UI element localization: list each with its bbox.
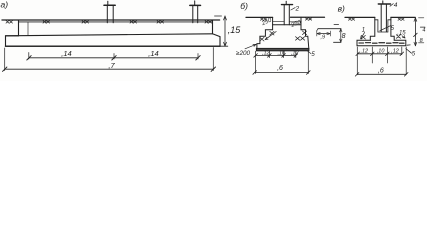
column 2 cap stub — [194, 1, 196, 6]
column B cap plate — [282, 4, 293, 6]
dim V extensions — [356, 47, 358, 75]
tick — [211, 67, 215, 71]
callout 5 bottom leader V — [406, 49, 412, 54]
svg-text:4: 4 — [394, 2, 398, 9]
small dash left of annex — [334, 23, 339, 25]
cup base step right — [391, 36, 394, 40]
depth dimension line 1,5 — [224, 16, 226, 46]
svg-text:б): б) — [240, 1, 248, 11]
dimension line B 1,2 1,0 1,2 — [256, 54, 296, 56]
step detail bottom tick — [334, 41, 342, 43]
strip foundation outline — [6, 20, 221, 46]
svg-text:4: 4 — [422, 28, 425, 34]
svg-text:,6: ,6 — [277, 65, 283, 72]
svg-text:8: 8 — [342, 33, 346, 40]
cup base step left — [370, 36, 375, 40]
ground line V left — [345, 16, 375, 18]
footing B base band — [256, 48, 309, 50]
socket cup outer right — [390, 17, 392, 36]
svg-text:,14: ,14 — [148, 49, 158, 58]
svg-text:,15: ,15 — [397, 31, 406, 37]
column 1 cap stub — [107, 1, 109, 5]
footing B pedestal right edge — [300, 17, 302, 30]
svg-text:,12: ,12 — [360, 49, 368, 55]
socket cup rim left — [375, 19, 378, 21]
svg-text:≥200: ≥200 — [236, 50, 250, 57]
svg-text:в): в) — [338, 4, 345, 14]
soil mark B1 — [261, 18, 267, 20]
dash at base corner V — [407, 44, 410, 46]
svg-text:а): а) — [1, 0, 9, 10]
column 2 shaft — [192, 5, 194, 22]
svg-text:,10: ,10 — [277, 50, 286, 56]
column B cap stub — [285, 1, 287, 4]
svg-text:,6: ,6 — [378, 67, 384, 74]
base slab V texture — [359, 42, 404, 45]
callout 2 leader — [291, 8, 295, 10]
depth dim extension top — [215, 15, 222, 17]
callout 4 leader — [390, 4, 393, 7]
svg-text:,12: ,12 — [262, 50, 270, 56]
step detail line upper — [318, 28, 341, 30]
mid tick — [414, 33, 418, 36]
callout 5 leader B — [307, 51, 311, 54]
socket cup inner left — [377, 20, 379, 32]
tick — [196, 56, 200, 60]
soil mark A1 — [6, 21, 13, 24]
column B shaft — [283, 5, 285, 25]
ground line A — [2, 19, 220, 21]
svg-text:,10: ,10 — [377, 49, 386, 55]
ticks — [356, 52, 360, 56]
ticks — [355, 73, 359, 77]
tick — [3, 67, 7, 71]
ticks — [253, 71, 257, 75]
footing B pedestal left edge — [272, 17, 274, 29]
callout 1 leader — [361, 32, 365, 38]
footing B step outline right — [301, 30, 309, 49]
socket cup interior bottom — [378, 31, 388, 33]
depth dim extension bottom — [221, 45, 228, 47]
soil mark A4 — [130, 21, 137, 24]
svg-text:,15: ,15 — [228, 25, 242, 35]
soil mark V1 — [349, 18, 355, 20]
base slab V — [357, 40, 406, 46]
strip foundation top edge — [19, 21, 213, 23]
dim B extensions — [255, 51, 257, 73]
dim1 extension right — [197, 54, 199, 60]
ledge dim 250 right line — [289, 21, 301, 23]
annotation >=200 leader — [245, 44, 256, 48]
dim2 extension left — [4, 48, 6, 71]
svg-text:,12: ,12 — [391, 49, 399, 55]
hatch marks on steps — [270, 31, 274, 35]
soil mark A6 — [205, 21, 212, 24]
socket cup inner right — [387, 20, 389, 32]
ground line B left — [246, 16, 273, 18]
ticks — [254, 54, 258, 58]
ledge dim 250 left line — [273, 20, 285, 22]
leader to base corner V — [402, 36, 405, 38]
soil mark V2 — [398, 18, 404, 20]
step detail vertical dim 8 — [340, 29, 342, 43]
dimension line V 1,2 1,0 1,2 — [358, 53, 402, 55]
ground line V right — [391, 16, 415, 18]
dim1 extension left — [28, 53, 30, 60]
column V shaft — [380, 4, 382, 32]
hatch marks on base V — [361, 35, 365, 39]
column V cap stub — [382, 1, 384, 4]
column V cap plate — [378, 3, 390, 5]
dim1 extension mid — [113, 54, 115, 60]
svg-text:2: 2 — [295, 5, 300, 12]
bracket tick mid — [420, 26, 425, 28]
tick — [112, 56, 116, 60]
tick — [27, 56, 31, 60]
soil mark A5 — [157, 21, 164, 24]
overall dimension line 7 — [5, 68, 214, 70]
column 2 cap plate — [190, 4, 201, 6]
step detail dim 0,9 — [317, 33, 331, 35]
step leader line B — [265, 32, 276, 40]
footing B pedestal top — [273, 24, 301, 26]
svg-text:,7: ,7 — [108, 61, 115, 70]
depth dimension line V — [414, 18, 416, 46]
footing B step outline left — [257, 30, 273, 49]
soil mark A3 — [82, 21, 89, 24]
overall dimension line V 3,6 — [357, 73, 406, 75]
socket cup rim right — [388, 19, 391, 21]
axis line left wall — [27, 22, 29, 36]
socket cup outer left — [374, 17, 376, 36]
callout 5 leader V — [380, 26, 390, 31]
svg-text:,14: ,14 — [61, 49, 71, 58]
soil mark A2 — [43, 21, 50, 24]
slab bottom emphasis — [6, 45, 221, 47]
dim2 extension right — [212, 48, 214, 71]
svg-text:,12: ,12 — [291, 50, 299, 56]
ground line B right — [291, 16, 325, 18]
svg-text:,9: ,9 — [321, 35, 326, 41]
column 1 cap plate — [104, 4, 115, 6]
slab top ledge line — [6, 34, 213, 36]
overall dimension line B 3,6 — [255, 72, 309, 74]
soil mark B2 — [306, 18, 312, 20]
dimension line 1,4+1,4 — [29, 57, 198, 59]
bracket tick top — [419, 17, 424, 19]
bracket tick bottom — [419, 42, 424, 44]
column 1 shaft — [106, 5, 108, 23]
